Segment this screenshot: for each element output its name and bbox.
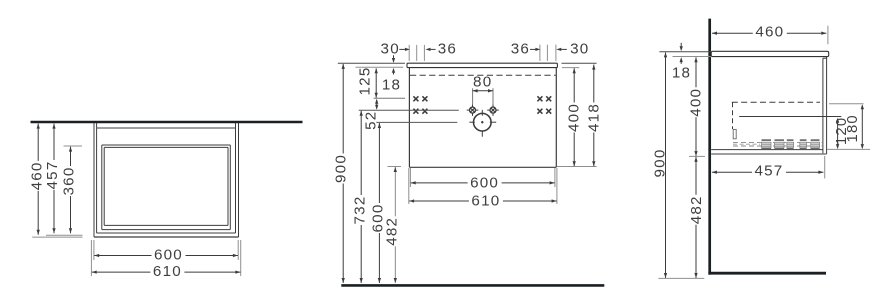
- svg-text:30: 30: [570, 40, 589, 57]
- svg-text:180: 180: [845, 114, 861, 142]
- svg-text:732: 732: [351, 196, 368, 225]
- svg-text:400: 400: [688, 88, 705, 117]
- svg-text:482: 482: [383, 217, 400, 246]
- svg-text:52: 52: [363, 111, 380, 130]
- svg-text:36: 36: [438, 40, 457, 57]
- svg-text:457: 457: [44, 161, 61, 190]
- svg-text:482: 482: [688, 195, 705, 224]
- svg-text:30: 30: [381, 40, 400, 57]
- svg-text:610: 610: [471, 193, 500, 210]
- svg-text:900: 900: [333, 154, 350, 183]
- svg-text:900: 900: [651, 149, 668, 178]
- svg-text:400: 400: [565, 103, 582, 132]
- svg-text:18: 18: [382, 77, 401, 94]
- svg-text:460: 460: [755, 24, 784, 41]
- svg-text:460: 460: [28, 161, 45, 190]
- svg-text:36: 36: [511, 40, 530, 57]
- svg-text:600: 600: [470, 174, 499, 191]
- svg-text:418: 418: [585, 103, 602, 132]
- svg-text:18: 18: [672, 65, 691, 82]
- svg-text:360: 360: [61, 167, 78, 196]
- svg-text:610: 610: [153, 263, 182, 280]
- svg-text:125: 125: [357, 67, 374, 96]
- svg-text:80: 80: [473, 74, 492, 91]
- svg-text:600: 600: [154, 246, 183, 263]
- svg-text:457: 457: [755, 162, 784, 179]
